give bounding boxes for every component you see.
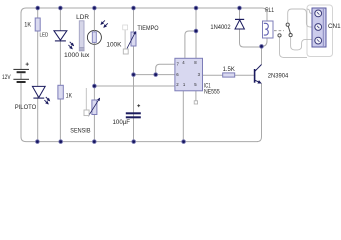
wire 555 trigger pin2 <box>94 85 174 87</box>
wire column TIEMPO/C1 <box>133 8 135 142</box>
mechanical link dashed <box>274 30 284 32</box>
relay contact pole <box>278 34 281 37</box>
wire 555 threshold pin6 <box>134 74 175 76</box>
node bottom rail 555 gnd <box>182 140 186 144</box>
wire 555 output pin3 <box>203 74 223 76</box>
terminal square TIEMPO wiper top <box>123 25 128 30</box>
wire collector to flyback node <box>261 46 263 64</box>
svg-text:NE555: NE555 <box>204 88 220 95</box>
node top rail diode <box>238 6 242 10</box>
relay contact blade <box>288 26 290 33</box>
diode D1 1N4002 <box>235 19 244 29</box>
LED D2 indicator <box>54 31 74 49</box>
op-amp timer IC1 NE555 <box>175 58 203 91</box>
wire 555 gnd pin1 <box>182 91 184 142</box>
resistor R1 1K <box>35 18 40 31</box>
wire CN1 top terminal stub <box>307 9 313 13</box>
node bottom rail R2 <box>59 140 63 144</box>
node LDR divider <box>93 84 97 88</box>
wiper lead TIEMPO <box>124 30 126 49</box>
node flyback junction <box>260 45 264 49</box>
wire 1.5K to base <box>235 74 254 76</box>
node top rail 555 <box>194 6 198 10</box>
svg-text:1000 lux: 1000 lux <box>64 52 90 59</box>
svg-text:TIEMPO: TIEMPO <box>137 25 158 32</box>
relay RL1 coil <box>263 21 274 38</box>
relay contact upper NC <box>286 23 289 26</box>
wire 555 pin5 stub <box>195 91 197 101</box>
wire 555 discharge pin7 <box>156 64 175 74</box>
node bottom rail C1 <box>132 140 136 144</box>
node bottom rail R1 <box>36 140 40 144</box>
svg-text:CN1: CN1 <box>328 23 341 30</box>
node top rail LDR <box>93 6 97 10</box>
wire contact pole to CN1 <box>280 37 308 57</box>
LDR photoresistor <box>87 20 107 44</box>
wire emitter to 0V <box>257 83 262 141</box>
connector CN1 outline <box>307 5 333 57</box>
node top rail TIEMPO <box>132 6 136 10</box>
wire contact NO to CN1 <box>291 37 312 50</box>
svg-text:1K: 1K <box>24 22 32 29</box>
node pin6/7 junction <box>154 73 158 77</box>
svg-text:2N3904: 2N3904 <box>268 72 289 79</box>
svg-text:LED: LED <box>40 33 49 39</box>
node top rail LED <box>59 6 63 10</box>
potentiometer TIEMPO 100K <box>127 32 136 49</box>
relay contact NO <box>289 34 292 37</box>
wire battery branch upper <box>20 12 22 69</box>
connector CN1 terminal block <box>312 8 326 47</box>
potentiometer SENSIB <box>88 98 99 116</box>
svg-text:1.5K: 1.5K <box>223 66 236 73</box>
node RC junction <box>132 73 136 77</box>
transistor Q1 2N3904 <box>255 65 262 84</box>
wire contact NC to CN1 <box>288 9 312 27</box>
svg-text:SENSIB: SENSIB <box>70 127 90 134</box>
wire bottom rail 0V <box>26 141 258 143</box>
wire column LDR/SENSIB <box>93 8 95 142</box>
resistor R2 1K <box>58 85 63 99</box>
wire column LED/R2 <box>59 8 61 142</box>
node 555 pin4/8 branch <box>194 29 198 33</box>
terminal square SENSIB wiper <box>84 110 89 116</box>
svg-text:12V: 12V <box>2 74 11 81</box>
wire 555 reset pin4 <box>185 31 196 58</box>
node top rail R1 <box>36 6 40 10</box>
wire diode column <box>240 8 262 47</box>
capacitor C1 100uF electrolytic <box>126 104 141 117</box>
svg-text:RL1: RL1 <box>265 7 274 14</box>
resistor R3 1.5K <box>223 73 235 77</box>
wire top rail +12V <box>21 8 267 21</box>
wire battery lower to bottom rail <box>21 83 26 142</box>
terminal square pin5 <box>194 101 197 104</box>
svg-text:1N4002: 1N4002 <box>210 24 231 31</box>
wire column R1/PILOTO <box>37 8 39 142</box>
wire relay coil bottom <box>262 38 268 46</box>
svg-text:LDR: LDR <box>76 14 89 21</box>
LED PILOTO <box>32 86 49 104</box>
svg-text:100K: 100K <box>106 42 122 49</box>
LDR slider control <box>79 21 84 51</box>
wiper lead SENSIB <box>85 88 87 110</box>
svg-text:PILOTO: PILOTO <box>15 104 37 111</box>
battery 12V <box>13 63 29 83</box>
svg-text:100µF: 100µF <box>113 119 131 126</box>
node bottom rail SENSIB <box>93 140 97 144</box>
terminal square TIEMPO wiper <box>123 49 128 54</box>
svg-text:1K: 1K <box>66 92 73 99</box>
wire 555 VCC pin8 <box>195 8 197 58</box>
